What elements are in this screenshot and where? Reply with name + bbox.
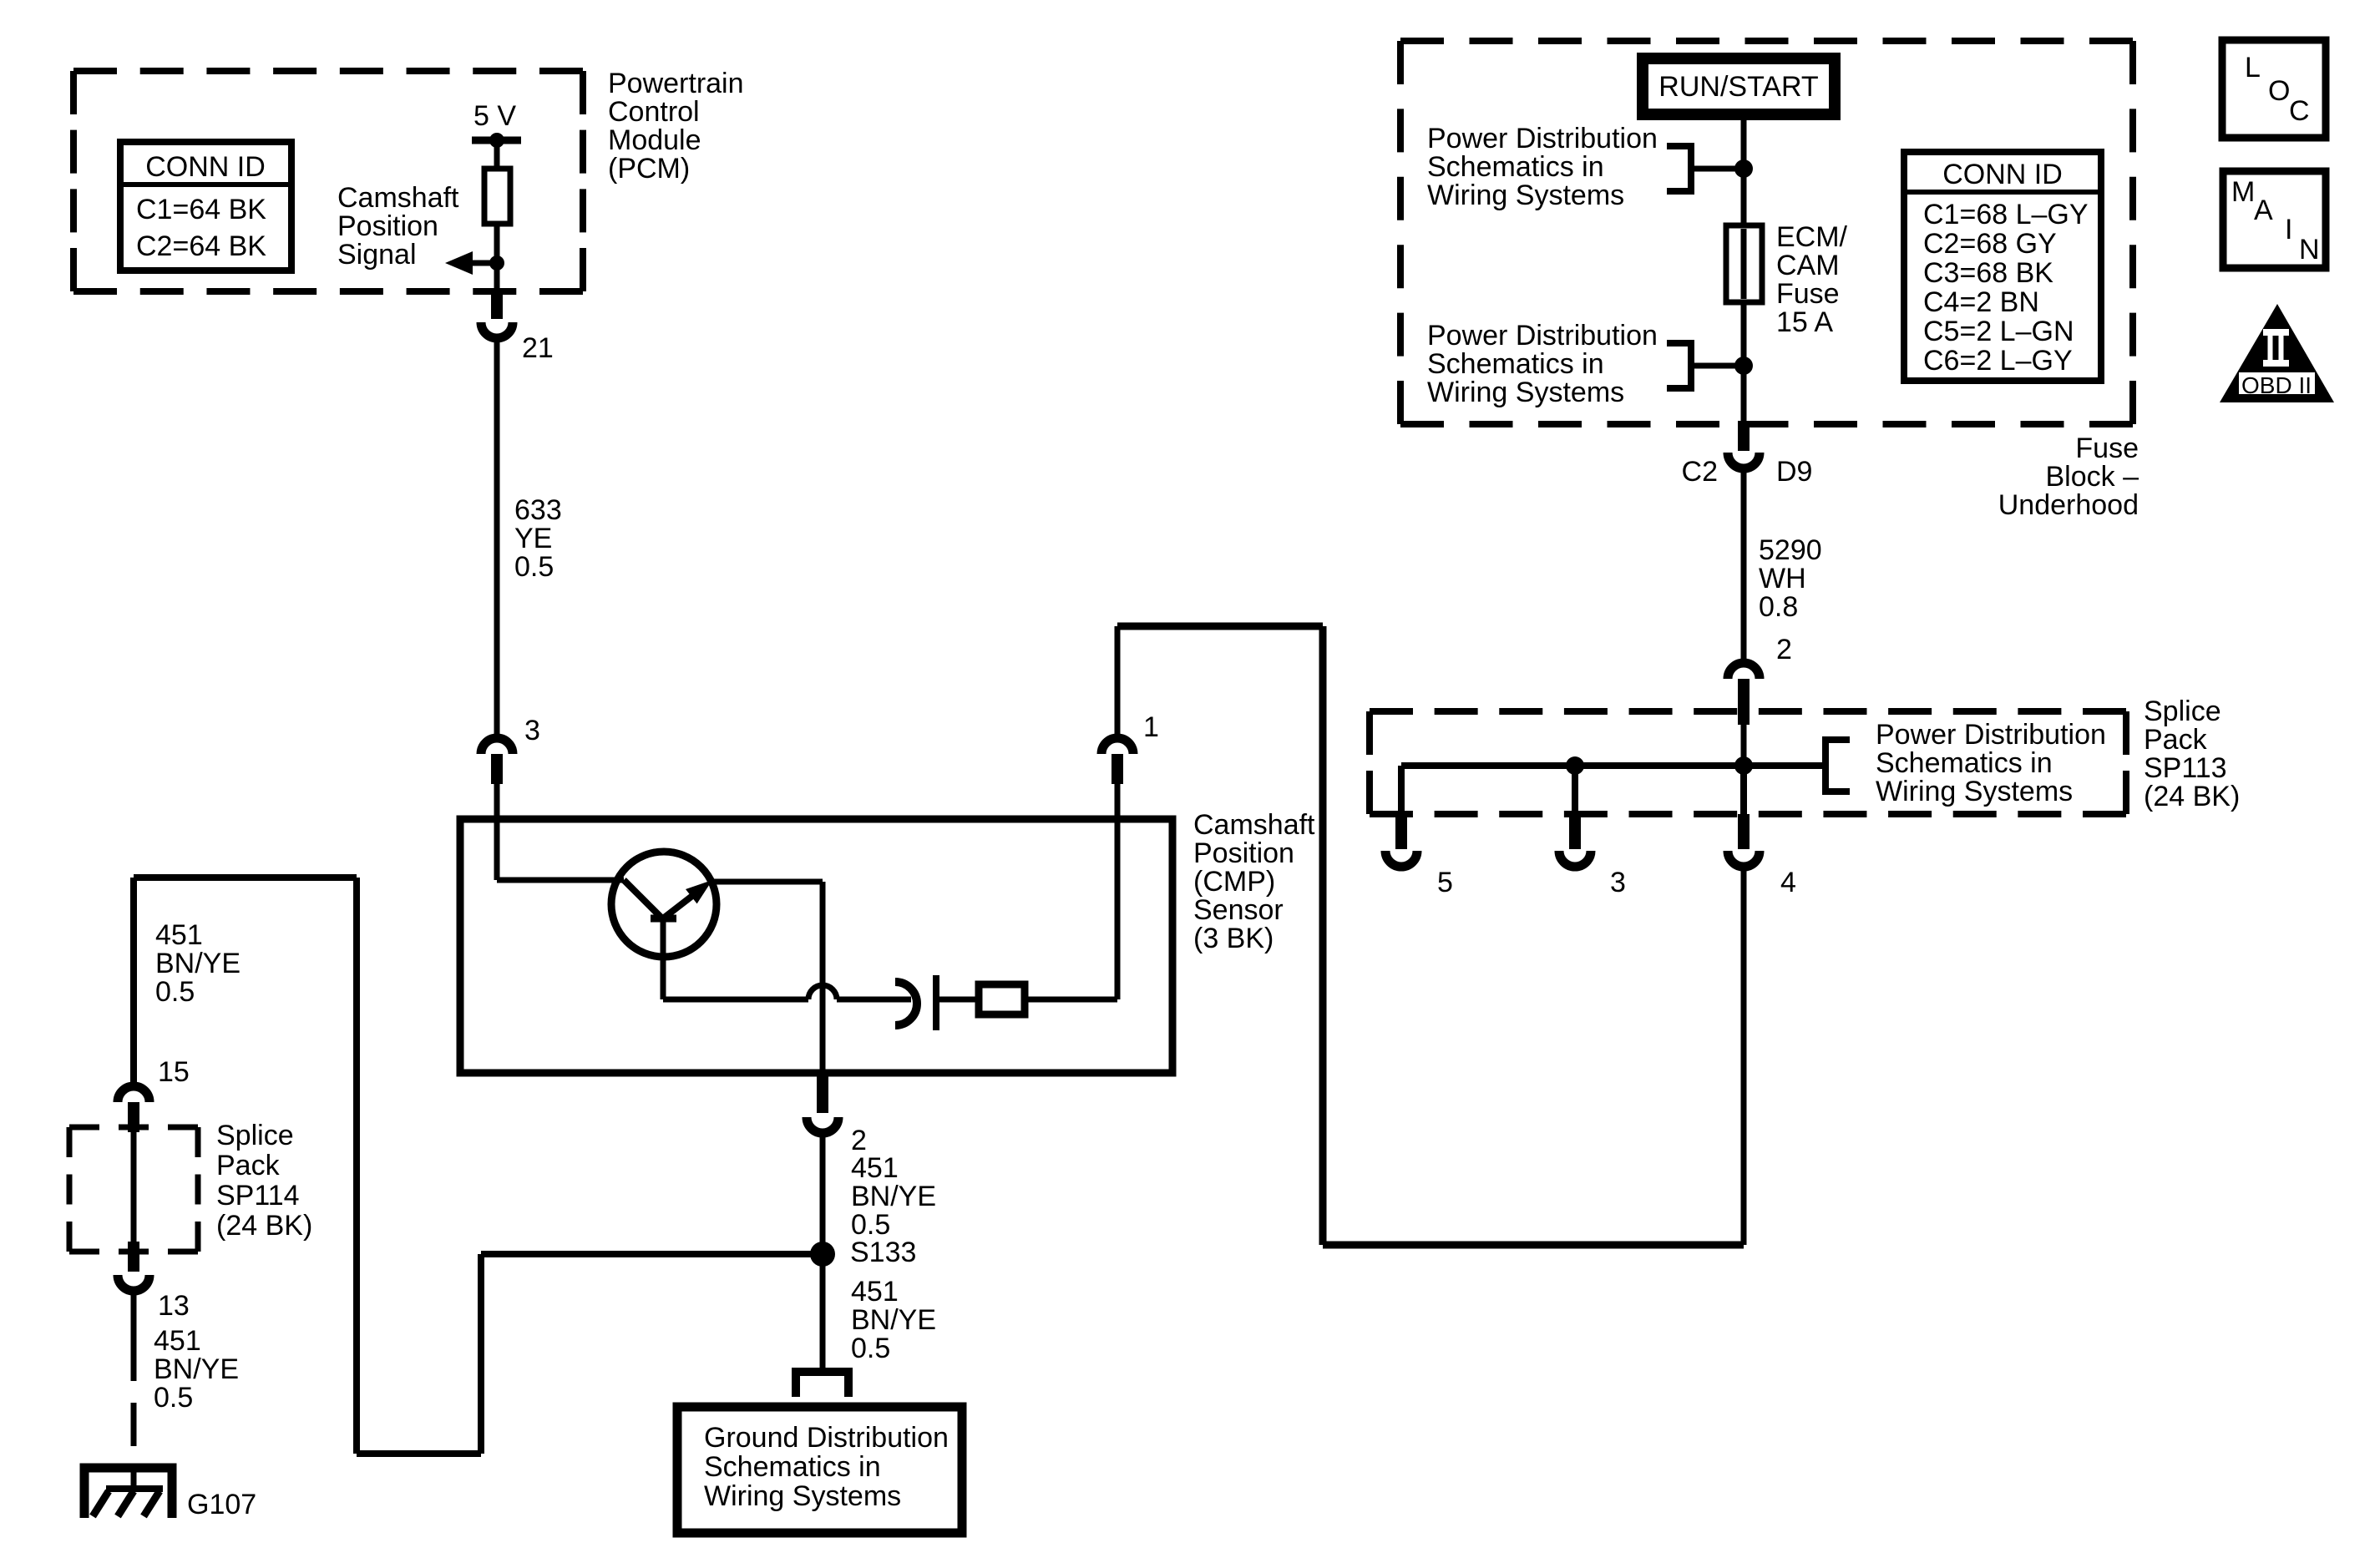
svg-text:5: 5 bbox=[1437, 867, 1453, 898]
svg-text:13: 13 bbox=[158, 1290, 190, 1322]
svg-text:BN/YE: BN/YE bbox=[154, 1353, 239, 1385]
svg-text:Position: Position bbox=[337, 210, 438, 242]
svg-text:Ground Distribution: Ground Distribution bbox=[704, 1422, 949, 1454]
svg-text:21: 21 bbox=[522, 332, 554, 364]
svg-text:Power Distribution: Power Distribution bbox=[1876, 719, 2106, 751]
svg-text:15: 15 bbox=[158, 1056, 190, 1088]
svg-text:Block –: Block – bbox=[2046, 461, 2139, 493]
svg-text:451: 451 bbox=[851, 1276, 899, 1308]
svg-text:Power Distribution: Power Distribution bbox=[1427, 320, 1658, 352]
svg-text:C5=2 L–GN: C5=2 L–GN bbox=[1923, 316, 2074, 347]
svg-text:Fuse: Fuse bbox=[1776, 278, 1840, 310]
svg-text:Wiring Systems: Wiring Systems bbox=[1427, 377, 1624, 408]
svg-text:0.5: 0.5 bbox=[155, 976, 195, 1008]
svg-text:Control: Control bbox=[608, 96, 700, 128]
svg-text:C2: C2 bbox=[1682, 456, 1718, 488]
svg-text:Camshaft: Camshaft bbox=[1193, 809, 1315, 841]
svg-text:Schematics in: Schematics in bbox=[1427, 151, 1604, 183]
svg-text:Sensor: Sensor bbox=[1193, 894, 1284, 926]
svg-text:0.5: 0.5 bbox=[154, 1382, 193, 1414]
svg-text:Schematics in: Schematics in bbox=[704, 1451, 881, 1483]
svg-text:I: I bbox=[2285, 214, 2292, 245]
svg-text:L: L bbox=[2245, 52, 2261, 83]
svg-text:CONN ID: CONN ID bbox=[1942, 159, 2063, 190]
svg-text:633: 633 bbox=[514, 494, 562, 526]
svg-text:Schematics in: Schematics in bbox=[1427, 348, 1604, 380]
svg-text:N: N bbox=[2299, 234, 2320, 266]
svg-text:C2=64 BK: C2=64 BK bbox=[136, 230, 266, 262]
svg-text:Wiring Systems: Wiring Systems bbox=[1876, 776, 2073, 807]
svg-text:451: 451 bbox=[154, 1325, 201, 1357]
svg-text:3: 3 bbox=[524, 715, 540, 746]
svg-text:O: O bbox=[2268, 75, 2290, 107]
svg-text:BN/YE: BN/YE bbox=[851, 1181, 936, 1212]
svg-text:Pack: Pack bbox=[216, 1150, 281, 1181]
svg-text:Position: Position bbox=[1193, 837, 1294, 869]
svg-text:(CMP): (CMP) bbox=[1193, 866, 1275, 898]
svg-text:C: C bbox=[2289, 95, 2310, 127]
svg-text:15 A: 15 A bbox=[1776, 306, 1833, 338]
svg-text:Signal: Signal bbox=[337, 239, 417, 271]
svg-text:5290: 5290 bbox=[1759, 534, 1822, 566]
svg-text:C1=64 BK: C1=64 BK bbox=[136, 194, 266, 225]
svg-text:(24 BK): (24 BK) bbox=[2144, 781, 2240, 812]
svg-text:OBD II: OBD II bbox=[2241, 372, 2312, 398]
svg-text:M: M bbox=[2231, 176, 2255, 208]
svg-text:2: 2 bbox=[1776, 634, 1792, 665]
svg-text:C2=68 GY: C2=68 GY bbox=[1923, 228, 2057, 260]
svg-text:Schematics in: Schematics in bbox=[1876, 747, 2053, 779]
svg-text:3: 3 bbox=[1610, 867, 1626, 898]
svg-text:Powertrain: Powertrain bbox=[608, 68, 744, 99]
svg-text:RUN/START: RUN/START bbox=[1658, 71, 1818, 103]
svg-text:CONN ID: CONN ID bbox=[145, 151, 266, 183]
svg-text:0.5: 0.5 bbox=[514, 551, 554, 583]
svg-text:BN/YE: BN/YE bbox=[155, 948, 241, 979]
svg-text:C6=2 L–GY: C6=2 L–GY bbox=[1923, 345, 2073, 377]
svg-text:Splice: Splice bbox=[216, 1120, 294, 1151]
svg-text:4: 4 bbox=[1780, 867, 1796, 898]
svg-text:CAM: CAM bbox=[1776, 250, 1840, 281]
svg-text:(3 BK): (3 BK) bbox=[1193, 923, 1274, 954]
svg-text:451: 451 bbox=[851, 1152, 899, 1184]
svg-text:(PCM): (PCM) bbox=[608, 153, 690, 185]
svg-text:BN/YE: BN/YE bbox=[851, 1304, 936, 1336]
svg-text:C4=2 BN: C4=2 BN bbox=[1923, 286, 2039, 318]
svg-text:Fuse: Fuse bbox=[2075, 432, 2139, 464]
svg-text:Power Distribution: Power Distribution bbox=[1427, 123, 1658, 154]
svg-text:(24 BK): (24 BK) bbox=[216, 1210, 312, 1242]
svg-text:Wiring Systems: Wiring Systems bbox=[704, 1480, 901, 1512]
svg-text:C1=68 L–GY: C1=68 L–GY bbox=[1923, 199, 2089, 230]
svg-text:YE: YE bbox=[514, 523, 552, 554]
svg-text:Pack: Pack bbox=[2144, 724, 2208, 756]
svg-text:Splice: Splice bbox=[2144, 696, 2221, 727]
svg-text:0.5: 0.5 bbox=[851, 1333, 890, 1364]
svg-text:0.8: 0.8 bbox=[1759, 591, 1798, 623]
svg-text:SP114: SP114 bbox=[216, 1180, 300, 1211]
svg-text:451: 451 bbox=[155, 919, 203, 951]
svg-text:A: A bbox=[2254, 195, 2273, 226]
svg-text:C3=68 BK: C3=68 BK bbox=[1923, 257, 2053, 289]
svg-text:1: 1 bbox=[1143, 711, 1159, 743]
svg-text:Module: Module bbox=[608, 124, 701, 156]
svg-text:WH: WH bbox=[1759, 563, 1806, 594]
svg-text:Wiring Systems: Wiring Systems bbox=[1427, 180, 1624, 211]
svg-text:G107: G107 bbox=[187, 1489, 256, 1520]
svg-text:5 V: 5 V bbox=[473, 100, 516, 132]
svg-text:Camshaft: Camshaft bbox=[337, 182, 459, 214]
svg-text:S133: S133 bbox=[850, 1237, 916, 1268]
svg-text:ECM/: ECM/ bbox=[1776, 221, 1848, 253]
svg-text:Underhood: Underhood bbox=[1998, 489, 2139, 521]
svg-text:D9: D9 bbox=[1776, 456, 1812, 488]
svg-text:SP113: SP113 bbox=[2144, 752, 2227, 784]
